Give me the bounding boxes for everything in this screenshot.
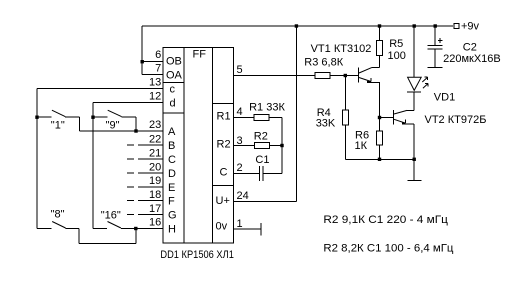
svg-text:OB: OB (166, 56, 182, 68)
switch "16" (93, 222, 136, 229)
wire +9v top rail (142, 25, 453, 27)
resistor R3 (315, 73, 330, 79)
wire pin 22 stub (127, 144, 163, 146)
wire pin 12 lead (93, 102, 163, 104)
switch "8" (37, 222, 136, 244)
resistor R5 (377, 41, 383, 56)
wire R3 to VT1 base (330, 75, 359, 77)
wire rail left drop to pins 6,7 (141, 26, 143, 75)
node junction R5 on rail (378, 24, 381, 27)
wire pin 24 lead (234, 201, 297, 203)
svg-text:R5: R5 (389, 38, 403, 50)
svg-text:G: G (168, 210, 177, 222)
svg-text:100: 100 (388, 50, 406, 62)
wire RC joining vertical (281, 118, 283, 174)
wire pin 21 stub (127, 158, 163, 160)
svg-text:4: 4 (237, 106, 243, 118)
wire pin 4 lead (234, 117, 254, 119)
resistor R2 (254, 143, 269, 149)
svg-text:R2: R2 (217, 139, 231, 151)
svg-text:17: 17 (149, 203, 161, 215)
svg-text:12: 12 (149, 91, 161, 103)
wire U+ riser to rail (295, 26, 297, 202)
svg-text:R1: R1 (217, 111, 231, 123)
node junction sw9 output on pin23 (134, 129, 137, 132)
wire IC right column divider (212, 48, 214, 244)
wire pin 20 stub (127, 172, 163, 174)
svg-text:R2 9,1К С1 220 - 4 мГц: R2 9,1К С1 220 - 4 мГц (323, 214, 448, 226)
svg-text:+9v: +9v (461, 21, 480, 33)
svg-text:C: C (220, 167, 228, 179)
wire VT2 emitter (394, 119, 414, 159)
wire VT1 emitter (359, 78, 380, 118)
svg-text:2: 2 (237, 162, 243, 174)
svg-text:1К: 1К (355, 140, 368, 152)
wire left vertical bus from pin13 (36, 89, 38, 229)
op-amp U1 : IC DD1 outer box (163, 48, 234, 244)
wire pin 1 lead (234, 228, 262, 230)
node junction C2 on rail (434, 24, 437, 27)
svg-text:OA: OA (166, 70, 183, 82)
svg-text:c: c (170, 84, 176, 96)
wire IC left col divider under OA (163, 82, 184, 84)
svg-text:"9": "9" (106, 119, 120, 131)
svg-text:R3 6,8К: R3 6,8К (304, 56, 343, 68)
svg-text:24: 24 (237, 190, 249, 202)
svg-text:19: 19 (149, 175, 161, 187)
svg-text:21: 21 (149, 148, 161, 160)
node junction switch1 input (35, 116, 38, 119)
wire pin 3 lead (234, 145, 255, 147)
wire pin 6 lead (142, 61, 163, 63)
node junction R6 bottom (378, 158, 381, 161)
wire R5 top to rail (379, 26, 381, 41)
svg-text:"1": "1" (51, 119, 65, 131)
wire C1 right (263, 173, 282, 175)
svg-text:20: 20 (149, 162, 161, 174)
transistor Q2 VT2 base bar (393, 110, 395, 124)
node terminal +9v square (454, 24, 459, 29)
switch "1" (37, 110, 80, 131)
svg-text:7: 7 (155, 63, 161, 75)
wire VT2 collector (394, 92, 414, 114)
wire pin 16 lead (136, 228, 163, 230)
svg-text:A: A (168, 126, 176, 138)
svg-text:R2 8,2К С1 100 - 6,4 мГц: R2 8,2К С1 100 - 6,4 мГц (323, 242, 454, 254)
svg-text:R1 33К: R1 33К (249, 101, 285, 113)
node junction VD1 on rail (413, 24, 416, 27)
wire pin 7 lead (142, 74, 163, 76)
node junction rail/pin6 (141, 60, 144, 63)
svg-text:VD1: VD1 (434, 91, 455, 103)
wire VT2 base (380, 117, 394, 119)
svg-text:"16": "16" (101, 209, 121, 221)
wire IC left column divider (183, 48, 185, 244)
resistor R6 (377, 118, 383, 160)
diode VD1 LED (407, 26, 428, 92)
wire pin 2 lead (234, 173, 260, 175)
wire left vertical bus from pin12 (92, 103, 94, 229)
switch "9" (93, 110, 136, 131)
svg-text:33K: 33K (316, 118, 336, 130)
svg-text:FF: FF (193, 49, 207, 61)
wire R2 right (269, 145, 282, 147)
node junction sw8 riser on pin16 (134, 227, 137, 230)
svg-text:"8": "8" (51, 209, 65, 221)
node junction U+ on rail (295, 24, 298, 27)
svg-text:D: D (168, 168, 176, 180)
capacitor C2 (427, 26, 442, 68)
svg-text:U+: U+ (216, 195, 230, 207)
svg-text:13: 13 (149, 77, 161, 89)
resistor R1 (254, 115, 269, 121)
wire IC right col divider above U+ (213, 185, 234, 187)
wire pin 17 stub (127, 214, 163, 216)
node junction VT2 emitter bottom (413, 158, 416, 161)
svg-text:1: 1 (237, 218, 243, 230)
node junction R4 tap (344, 74, 347, 77)
resistor R4 (342, 76, 348, 160)
svg-text:6: 6 (155, 49, 161, 61)
svg-text:C2: C2 (463, 42, 477, 54)
svg-text:F: F (168, 196, 175, 208)
svg-text:DD1 КР1506 ХЛ1: DD1 КР1506 ХЛ1 (160, 249, 234, 261)
transistor Q1 VT1 base bar (358, 68, 360, 83)
ground below VT2 (407, 159, 421, 180)
svg-text:220мкХ16В: 220мкХ16В (443, 53, 501, 65)
svg-text:E: E (168, 182, 175, 194)
node label + polarity C2 (438, 38, 443, 43)
wire R1 right (269, 117, 282, 119)
ground 0v end bar (260, 223, 262, 236)
node junction VT1 emitter / R6 / VT2 base (378, 116, 381, 119)
wire bottom net R4-R6-VT2e (345, 158, 414, 160)
wire pin 18 stub (127, 200, 163, 202)
node junction switch9 input (91, 116, 94, 119)
ground below C2 (427, 67, 442, 69)
svg-text:16: 16 (149, 217, 161, 229)
svg-text:B: B (168, 140, 175, 152)
svg-text:18: 18 (149, 189, 161, 201)
wire IC left col divider under d (163, 112, 184, 114)
svg-text:VT1 КТ3102: VT1 КТ3102 (311, 43, 372, 55)
svg-text:C1: C1 (255, 154, 269, 166)
svg-text:H: H (168, 224, 176, 236)
svg-text:22: 22 (149, 134, 161, 146)
capacitor C1 (260, 166, 263, 181)
svg-text:VT2 КТ972Б: VT2 КТ972Б (425, 114, 487, 126)
svg-text:23: 23 (149, 119, 161, 131)
wire pin 5 lead (234, 75, 316, 77)
wire VT1 collector (359, 56, 380, 74)
svg-text:5: 5 (237, 64, 243, 76)
wire pin 23 lead (80, 130, 163, 132)
node junction RC vertical / R2 (280, 144, 283, 147)
svg-text:d: d (170, 98, 176, 110)
wire pin 19 stub (127, 186, 163, 188)
svg-text:0v: 0v (216, 221, 228, 233)
wire IC right col divider above R1 (213, 103, 234, 105)
svg-text:R2: R2 (254, 130, 268, 142)
wire pin 13 lead (37, 88, 163, 90)
svg-text:C: C (168, 154, 176, 166)
